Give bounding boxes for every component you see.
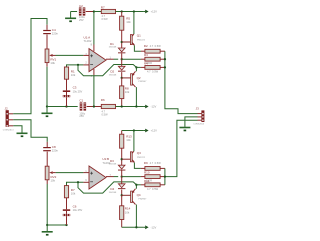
bottom ground rail wire [47,224,66,226]
svg-text:R4: R4 [144,62,148,66]
U1:A V+ pin8 wire to +12V rail [93,45,95,52]
svg-text:4.7 0.5W: 4.7 0.5W [150,44,162,48]
ground below RV1 [42,107,53,118]
resistor R1 [64,67,76,79]
svg-text:+12V: +12V [151,129,158,133]
resistor R7b [64,186,76,198]
diode D2 [118,66,125,71]
svg-text:10k: 10k [125,90,130,94]
svg-text:J3: J3 [196,106,200,110]
wire to R7 [94,11,101,13]
wire R9v top to inverting input node [67,182,84,185]
wire Q2 emitter node to R4 [136,66,141,68]
wire R4 to bus [160,66,165,68]
svg-text:0.5W: 0.5W [102,112,109,116]
wire R2 to bus [160,50,165,52]
-12V rail wire bottom [122,226,144,228]
U1:A output wire to diode node [106,58,114,60]
wire C6 to ground rail [66,216,68,225]
resistor R2 [145,49,160,53]
svg-text:1N4148: 1N4148 [109,164,117,166]
wire Q1 collector to +12V rail [133,12,135,35]
capacitor C6 [63,209,70,216]
wire Q1 emitter to R2 [134,45,141,51]
wire output node to R3 [122,58,141,60]
op-amp U1:B [85,157,111,189]
capacitor C4 [43,28,58,36]
svg-text:1N4148: 1N4148 [109,47,117,49]
wire R11 to bus [160,184,165,186]
resistor R5 [120,16,132,30]
svg-text:1N4148: 1N4148 [109,192,117,194]
wire node to Q3 base [122,158,131,160]
capacitor C1 [80,102,86,110]
wire to C6 [66,198,68,210]
J2 pin stubs [9,113,13,115]
wire R3 to bus [160,58,165,60]
svg-text:CONN-SIL3: CONN-SIL3 [193,124,205,126]
svg-text:Q3: Q3 [137,151,141,155]
wire node to Q1 base [122,41,131,43]
power terminal +12V bottom [144,129,158,133]
svg-text:Q2: Q2 [137,76,141,80]
wire Q3 collector to +12V rail [133,131,135,152]
wire node to Q2 base [122,77,131,79]
resistor R6 [101,98,116,116]
svg-text:TL062: TL062 [84,39,92,43]
wire R1 to C3 [66,79,68,90]
svg-text:R2: R2 [144,44,148,48]
wire Q4 collector to -12V rail [135,205,137,228]
svg-text:4.7 0.5W: 4.7 0.5W [147,187,159,191]
wire R8 to -12V rail [121,99,123,107]
svg-text:R3: R3 [144,53,148,57]
diode D1 [118,48,125,53]
svg-text:D2: D2 [110,70,114,74]
power terminal -12V top [144,105,157,109]
feedback wire U1:A [78,65,136,76]
svg-text:PN2907: PN2907 [138,81,147,83]
svg-text:D3: D3 [110,159,114,163]
resistor R8 [120,86,130,99]
input connector J2 [3,107,15,132]
ground below RV2 [42,225,53,236]
resistor R13 [120,134,132,148]
svg-text:D1: D1 [110,42,114,46]
wire rail to R13 [121,131,123,135]
ground rail to C3 and C1 [47,106,78,108]
svg-text:R10: R10 [144,170,150,174]
svg-text:C2: C2 [79,4,83,8]
wire R1 top to inverting input node [67,65,84,67]
resistor R4 [145,66,160,70]
wire Q2 collector to -12V rail [135,87,137,106]
U1:A V- pin4 wire to -12V rail [93,69,95,75]
bottom output bus wire [164,168,166,184]
svg-text:R9: R9 [144,161,148,165]
resistor R10 [145,175,160,179]
svg-text:4.7 0.5W: 4.7 0.5W [150,161,162,165]
transistor Q2 [131,71,136,87]
transistor Q4 [131,189,136,205]
svg-text:10u 25V: 10u 25V [73,208,83,212]
wire J2 pin3 to ground [13,125,22,128]
jack pin2 wire to ground [198,116,202,118]
resistor R11 [145,183,160,187]
svg-text:10u 25V: 10u 25V [73,89,83,93]
svg-text:25V: 25V [79,114,84,118]
wire node to Q4 base [122,194,131,196]
svg-text:10k: 10k [50,61,55,65]
resistor R14 [120,206,131,220]
svg-text:Q4: Q4 [137,193,141,197]
svg-text:10k: 10k [51,178,56,182]
svg-text:C3: C3 [73,86,77,90]
svg-text:PN2222: PN2222 [137,40,146,42]
output bus wire to jack pin1 [165,51,198,113]
svg-text:C6: C6 [73,205,77,209]
ground at jack [179,121,190,132]
wire output node to D4 [121,177,123,184]
resistor R3 [145,57,160,61]
wire Q2 emitter to R4 node [135,67,137,71]
capacitor C8 [43,145,58,153]
power terminal +12V top [144,10,158,14]
resistor R7 [101,6,116,21]
wire C4 to RV1 [46,35,48,50]
svg-text:-12V: -12V [151,225,157,229]
wire C1 to pin4 junction [87,106,102,108]
diode D3 [118,165,125,170]
ground left of C2 [65,12,76,23]
svg-text:Q1: Q1 [137,34,141,38]
wire Q4 emitter to R11 node [135,185,137,189]
svg-text:PN2907: PN2907 [138,198,147,200]
wire output node to D2 [121,59,123,66]
jack pin1 stub [198,113,202,115]
svg-text:220n: 220n [52,32,59,36]
wire Q3 emitter to R9 [134,163,141,169]
+12V rail wire [116,11,144,13]
wire R14 to -12V rail [121,220,123,228]
capacitor C2 [79,7,85,15]
U1:B output wire to diode node [106,176,114,178]
svg-text:10k: 10k [71,192,76,196]
svg-text:R11: R11 [144,179,150,183]
transistor Q3 [130,151,134,163]
svg-text:D4: D4 [110,187,114,191]
svg-text:R6: R6 [101,98,105,102]
transistor Q1 [130,34,134,46]
resistor R9 [145,167,160,171]
wire R9 to bus [160,167,165,169]
wire J2 pin1 to C4 (right input) [13,19,47,114]
output jack J3 [193,106,205,125]
wire RV2 wiper to U1:B +in pin5 [56,172,84,174]
wire R10 to bus [160,176,165,178]
jack pin3 wire to bottom channel bus [198,119,202,121]
svg-text:J2: J2 [5,107,9,111]
svg-text:10k: 10k [126,138,131,142]
op-amp U1:A [84,35,112,71]
svg-text:0.5W: 0.5W [102,17,109,21]
svg-text:PN2222: PN2222 [137,157,146,159]
-12V rail wire [116,106,144,108]
wire RV2 bottom to ground rail [46,180,48,184]
power terminal -12V bottom [144,225,157,229]
svg-text:C1: C1 [79,98,83,102]
wire C2 to pin8 junction [86,11,94,13]
svg-text:10k: 10k [125,210,130,214]
svg-text:10k: 10k [126,20,131,24]
wire R5 to Q1 base node [121,30,123,48]
feedback wire U1:B [78,182,136,193]
svg-text:R7: R7 [101,6,105,10]
ground at C2 [71,11,78,13]
wire D2 to Q2 base node [121,72,123,78]
wire RV1 wiper to U1:A +in pin3 [56,54,84,56]
svg-text:220n: 220n [52,149,59,153]
wire R13 to Q3 base node [121,148,123,165]
svg-text:+12V: +12V [151,10,158,14]
wire C3 to ground rail [66,97,68,106]
svg-text:CONN-SIL3: CONN-SIL3 [3,129,15,131]
wire node to R8 [121,78,123,86]
svg-text:10k: 10k [71,73,76,77]
wire node to R14 [121,195,123,206]
svg-text:-12V: -12V [151,105,157,109]
svg-text:4.7 0.5W: 4.7 0.5W [147,70,159,74]
+12V rail wire bottom channel [122,130,144,132]
wire rail to R5 [121,12,123,17]
wire Q4 emitter node to R11 [136,184,141,186]
potentiometer RV2 [45,166,56,182]
wire D3 to output node [121,171,123,177]
diode D4 [118,184,125,189]
ground at input connector [17,127,28,138]
wire D4 to Q4 base node [121,190,123,196]
wire C8 to RV2 [46,152,48,167]
wire RV1 bottom to ground rail [46,63,48,67]
wire J2 pin2 to C8 (left input) [13,120,47,142]
potentiometer RV1 [45,49,56,65]
wire output node to R10 [122,176,141,178]
capacitor C3 [63,90,70,97]
svg-text:1N4148: 1N4148 [109,74,117,76]
wire D1 to output node [121,53,123,59]
svg-text:25V: 25V [79,18,84,22]
